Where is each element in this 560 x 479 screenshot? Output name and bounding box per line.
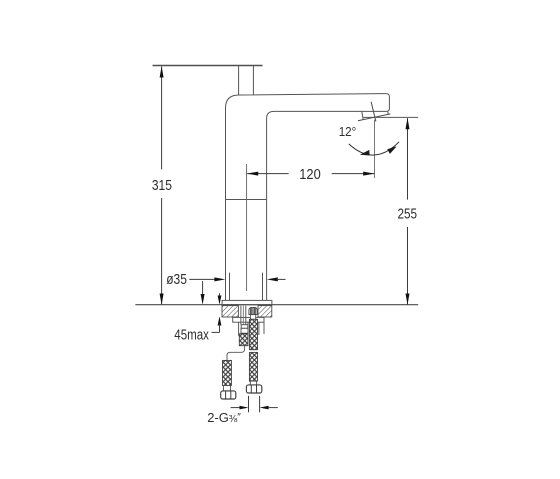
45max upper arrow line — [219, 293, 221, 297]
2-G3/8 left arrowhead — [240, 406, 249, 410]
right hose lower segment — [249, 352, 257, 381]
right sleeve left line — [258, 322, 260, 335]
body centerline — [246, 164, 248, 291]
left hex nut facet lines — [226, 391, 231, 399]
body joint line — [226, 199, 268, 201]
dia35 right arrowhead — [267, 277, 278, 281]
mounting bolt head — [249, 307, 257, 314]
45max lower arrowhead — [218, 316, 222, 325]
right hose upper segment — [249, 319, 257, 349]
right sleeve right line — [263, 322, 265, 334]
aerator 12-deg axis line — [371, 102, 376, 122]
dimension 120 left arrowhead — [247, 172, 258, 176]
body inner shank right line — [262, 273, 264, 301]
stud collar — [241, 325, 248, 329]
lever handle top line — [153, 65, 263, 67]
dimension 315 line upper — [161, 67, 163, 170]
dimension 255 line upper — [407, 118, 409, 199]
svg-text:2-G⅜″: 2-G⅜″ — [207, 410, 241, 425]
bolt neck — [250, 315, 255, 320]
countertop hole arrow line — [202, 281, 204, 296]
left hose upper segment — [239, 334, 248, 346]
handle stem right line — [252, 66, 254, 95]
2-G3/8 right arrowhead — [260, 406, 269, 410]
base plate — [222, 300, 272, 304]
left sleeve left line — [238, 322, 240, 336]
2-G3/8 extension line right — [259, 396, 261, 412]
spout tip centerline — [374, 120, 376, 178]
dimension 315 top arrowhead — [160, 66, 164, 77]
spout tip reference line — [363, 116, 418, 118]
aerator bottom slant line — [358, 114, 390, 121]
2-G3/8 extension line left — [248, 396, 250, 412]
45max upper arrowhead — [218, 296, 222, 305]
threaded stud right line — [245, 306, 247, 325]
svg-text:315: 315 — [152, 178, 172, 194]
right hex nut facet lines — [251, 385, 256, 393]
hose break curve — [227, 346, 244, 361]
svg-text:255: 255 — [398, 207, 418, 223]
dimension 120 right arrowhead — [363, 172, 374, 176]
45max lower arrow line — [219, 324, 221, 333]
dimension 315 line lower — [161, 198, 163, 305]
swivel arc — [349, 142, 399, 155]
dimension 120 line right — [332, 173, 375, 175]
dia35 left arrowhead — [214, 277, 225, 281]
dimension 315 bottom arrowhead — [160, 294, 164, 305]
threaded stud center line — [242, 306, 244, 346]
dia35 right shaft — [277, 278, 286, 280]
left sleeve right line — [247, 322, 249, 336]
svg-text:45max: 45max — [174, 328, 209, 344]
countertop hole arrowhead — [201, 294, 205, 305]
stud nut — [241, 328, 248, 333]
2-G3/8 dim line left shaft — [231, 407, 240, 409]
countertop hatch left block — [222, 306, 238, 317]
handle stem left line — [238, 66, 240, 95]
svg-text:12°: 12° — [339, 124, 357, 139]
dimension 255 line lower — [407, 227, 409, 305]
aerator right edge — [387, 112, 390, 115]
dimension 255 bottom arrowhead — [406, 294, 410, 305]
svg-text:ø35: ø35 — [166, 272, 187, 288]
faucet body + spout outer outline — [226, 94, 390, 301]
dia35 leader line — [189, 278, 217, 280]
left hex nut — [221, 391, 236, 399]
left hose collar — [223, 386, 230, 391]
washer bar — [233, 317, 264, 322]
swivel arc left arrowhead — [360, 150, 370, 156]
left hose lower segment — [223, 360, 232, 385]
threaded stud left line — [240, 306, 242, 325]
aerator left edge — [362, 112, 363, 120]
bolt head knurl lines — [250, 307, 255, 314]
countertop line — [135, 304, 418, 306]
45max leader — [212, 331, 220, 333]
dimension 120 line left — [247, 173, 288, 175]
right hex nut — [246, 385, 261, 393]
right hose collar — [250, 381, 256, 385]
body inner shank left line — [229, 273, 231, 301]
swivel arc right arrowhead — [387, 146, 397, 154]
2-G3/8 dim line right shaft — [268, 407, 278, 409]
svg-text:120: 120 — [299, 167, 321, 183]
countertop hatch right block — [258, 306, 272, 317]
dimension 255 top arrowhead — [406, 118, 410, 129]
